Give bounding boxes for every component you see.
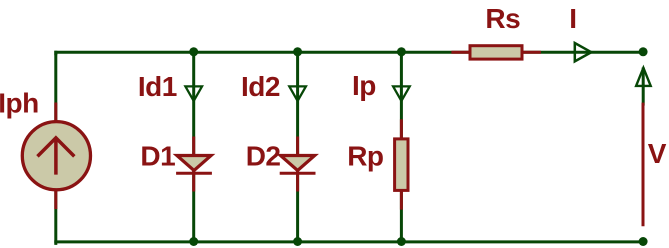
junction dot top Rp xyxy=(397,47,406,56)
wire D1 branch xyxy=(192,52,195,242)
wire D2 branch xyxy=(296,52,299,242)
svg-text:Id1: Id1 xyxy=(138,71,177,102)
pin Iph bottom red xyxy=(54,190,57,208)
wire Rp branch xyxy=(400,52,403,242)
diode D1 xyxy=(177,156,211,174)
svg-text:Ip: Ip xyxy=(352,70,376,101)
svg-text:V: V xyxy=(648,138,667,169)
junction dot bottom D1 xyxy=(189,237,198,246)
junction dot top right node xyxy=(639,47,648,56)
svg-text:Iph: Iph xyxy=(0,88,39,119)
pin Rs right red xyxy=(522,51,539,54)
pin Iph top red xyxy=(54,104,57,122)
current arrow I xyxy=(575,43,592,61)
pin D2 cathode red xyxy=(296,172,299,190)
junction dot bottom D2 xyxy=(293,237,302,246)
junction dot bottom Rp xyxy=(397,237,406,246)
pin D2 anode red xyxy=(296,138,299,156)
current arrow Ip xyxy=(393,86,410,101)
wire top net xyxy=(56,52,643,54)
voltage arrow V head xyxy=(636,68,651,104)
pin D1 cathode red xyxy=(192,172,195,190)
current arrow Id2 xyxy=(289,86,306,101)
svg-text:D1: D1 xyxy=(140,140,175,171)
pin Rp bottom red xyxy=(400,191,403,208)
current source Iph xyxy=(22,122,90,190)
pin Rp top red xyxy=(400,121,403,139)
resistor Rp xyxy=(395,139,408,191)
current arrow Id1 xyxy=(185,86,202,101)
wire bottom net xyxy=(56,240,643,243)
pin Rs left red xyxy=(453,51,470,54)
pin D1 anode red xyxy=(192,138,195,156)
junction dot top D2 xyxy=(293,47,302,56)
junction dot bottom right node xyxy=(639,237,648,246)
svg-text:I: I xyxy=(569,3,576,34)
svg-text:D2: D2 xyxy=(246,140,281,171)
diode D2 xyxy=(281,156,315,174)
svg-text:Rs: Rs xyxy=(485,3,520,34)
svg-text:Rp: Rp xyxy=(347,141,383,172)
resistor Rs xyxy=(470,46,522,59)
wire left vertical xyxy=(54,52,57,243)
voltage arrow V red stem xyxy=(642,104,645,225)
svg-text:Id2: Id2 xyxy=(241,71,280,102)
junction dot top D1 xyxy=(189,47,198,56)
